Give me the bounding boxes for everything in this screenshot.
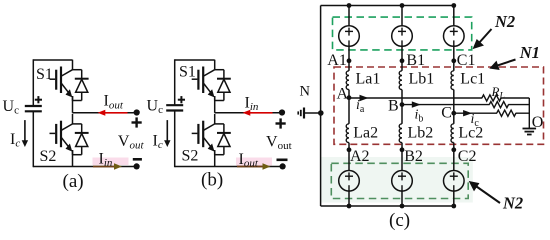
svg-text:Lc2: Lc2 [458, 125, 483, 142]
svg-text:S1: S1 [36, 66, 53, 83]
svg-text:C: C [441, 105, 452, 122]
svg-text:Lc1: Lc1 [460, 71, 485, 88]
svg-text:Lb1: Lb1 [409, 71, 435, 88]
svg-text:C1: C1 [457, 52, 476, 69]
svg-text:B: B [388, 98, 399, 115]
svg-text:N2: N2 [502, 193, 523, 212]
svg-text:S2: S2 [182, 148, 199, 165]
svg-text:N1: N1 [519, 43, 540, 62]
svg-text:A1: A1 [327, 52, 347, 69]
svg-text:O: O [532, 114, 544, 131]
svg-text:C2: C2 [458, 148, 477, 165]
svg-text:N2: N2 [494, 12, 515, 31]
svg-text:S2: S2 [40, 148, 57, 165]
svg-text:La2: La2 [353, 125, 378, 142]
svg-text:B2: B2 [404, 148, 423, 165]
svg-text:A: A [337, 86, 349, 103]
svg-text:N: N [300, 84, 311, 100]
svg-text:S1: S1 [179, 64, 196, 81]
svg-text:A2: A2 [350, 148, 370, 165]
svg-text:(a): (a) [63, 171, 84, 192]
svg-text:B1: B1 [406, 52, 425, 69]
svg-text:(b): (b) [201, 170, 223, 191]
svg-text:(c): (c) [389, 210, 410, 231]
svg-text:Lb2: Lb2 [408, 125, 434, 142]
svg-text:La1: La1 [356, 71, 381, 88]
